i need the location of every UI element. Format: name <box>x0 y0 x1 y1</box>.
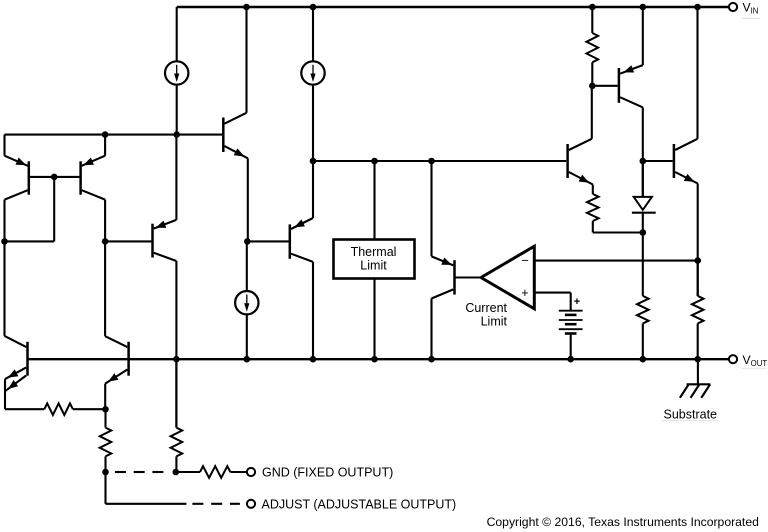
node dot x4 y241 <box>1 238 8 245</box>
node dot base mirror <box>51 174 58 181</box>
resistor R3 <box>637 233 649 360</box>
node dot rail x431 <box>428 356 435 363</box>
node dot x247 y241 <box>244 238 251 245</box>
resistor R6 <box>100 409 112 472</box>
node dot W1 x176 <box>173 131 180 138</box>
transistor Q8 <box>674 139 698 184</box>
wire Q8 base <box>643 160 673 162</box>
wire R2 to diode node <box>593 231 643 233</box>
node dot top rail x592 <box>589 4 596 11</box>
transistor Q4 <box>153 220 177 261</box>
wire top VIN rail <box>177 6 729 8</box>
wire thermal bottom pin <box>373 279 375 360</box>
transistor Q1 <box>5 156 29 200</box>
wire left column <box>3 241 5 336</box>
transistor Q6 <box>432 256 455 298</box>
node dot rail x643 <box>640 356 647 363</box>
node dot rail x374 <box>371 356 378 363</box>
wire Q1 collector down <box>3 200 5 242</box>
wire Q4 emitter up <box>175 135 177 220</box>
wire Q8 collector up <box>696 7 698 139</box>
wire Q10 emitter down <box>4 379 6 409</box>
svg-text:Substrate: Substrate <box>664 408 718 422</box>
node dot x176 y472 <box>173 469 180 476</box>
wire Q11 emitter down <box>104 384 106 410</box>
svg-text:VIN: VIN <box>743 1 759 16</box>
node dot top rail x247 <box>243 4 250 11</box>
wire Q6 emitter drop <box>430 161 432 256</box>
wire R5 to node <box>73 408 106 410</box>
resistor R1 <box>587 7 599 86</box>
wire Q6 collector down <box>430 299 432 360</box>
wire thermal top pin <box>373 161 375 240</box>
node dot W2 x431 <box>428 158 435 165</box>
node dot x592 y86 <box>589 83 596 90</box>
svg-text:Thermal: Thermal <box>351 245 397 259</box>
node dot W2 x374 <box>371 158 378 165</box>
diode D1 <box>632 161 656 233</box>
transistor Q5 <box>290 218 313 262</box>
node dot rail x176 <box>173 356 180 363</box>
node dot x643 y161 <box>640 158 647 165</box>
wire VOUT rail <box>27 358 729 360</box>
wire Q9 collector up <box>591 86 593 139</box>
wire Q7 collector down <box>642 107 644 196</box>
resistor R7 <box>171 359 183 472</box>
wire dashed gnd link <box>115 471 126 473</box>
wire to R5 <box>5 408 44 410</box>
svg-text:GND (FIXED OUTPUT): GND (FIXED OUTPUT) <box>262 466 393 480</box>
node dot minus x697 <box>694 257 701 264</box>
node dot W2 x313 <box>310 158 317 165</box>
wire Q1 Q2 base <box>28 176 82 178</box>
transistor Q3 <box>223 113 248 159</box>
svg-text:Limit: Limit <box>481 315 508 329</box>
svg-text:−: − <box>522 254 529 268</box>
resistor R2 <box>587 185 599 233</box>
terminal VOUT <box>729 355 737 363</box>
label VOUT underline <box>742 367 766 369</box>
transistor Q11 <box>105 336 129 383</box>
current source I3 <box>235 241 258 359</box>
svg-text:Current: Current <box>465 301 507 315</box>
node dot top rail x697 <box>694 4 701 11</box>
wire opamp minus input <box>534 260 697 262</box>
transistor Q7 <box>619 65 643 107</box>
node dot rail x697 <box>694 356 701 363</box>
node dot top rail x313 <box>310 4 317 11</box>
svg-text:Limit: Limit <box>360 259 387 273</box>
wire Q5 collector down <box>312 262 314 359</box>
wire adjust drop <box>104 472 106 504</box>
wire dashed adjust <box>192 503 203 505</box>
wire Q2 emitter feed <box>104 135 106 156</box>
node dot W1 x105 <box>102 131 109 138</box>
transistor Q2 <box>81 156 106 200</box>
node dot x643 y232 <box>640 229 647 236</box>
terminal ADJUST <box>247 500 255 508</box>
wire substrate stub <box>697 359 699 384</box>
wire gnd solid <box>176 471 200 473</box>
label substrate underline <box>662 420 719 422</box>
node dot x105 y409 <box>102 406 109 413</box>
ground substrate symbol <box>680 384 710 398</box>
node dot rail x570 <box>567 356 574 363</box>
resistor R8 <box>200 466 230 478</box>
wire Q7 emitter up <box>642 7 644 65</box>
block thermal limit <box>334 240 415 279</box>
wire gnd to terminal <box>230 471 247 473</box>
terminal GND <box>247 468 255 476</box>
svg-text:VOUT: VOUT <box>743 353 768 368</box>
svg-text:ADJUST (ADJUSTABLE OUTPUT): ADJUST (ADJUSTABLE OUTPUT) <box>262 498 457 512</box>
node dot rail x313 <box>310 356 317 363</box>
wire Q3 collector up <box>245 7 247 113</box>
wire Q4 collector down <box>175 261 177 428</box>
svg-text:+: + <box>574 296 580 308</box>
current source I1 <box>165 7 188 135</box>
wire Q2 collector down <box>104 200 106 337</box>
node dot top rail x643 <box>640 4 647 11</box>
battery reference <box>559 311 583 360</box>
wire W2 <box>313 160 566 162</box>
wire adjust solid <box>106 503 187 505</box>
wire Q5 emitter up <box>312 161 314 218</box>
wire T1 emitter feed <box>3 135 5 156</box>
op-amp U1 <box>481 246 534 309</box>
resistor R4 <box>692 261 704 360</box>
wire opamp plus input <box>534 292 570 294</box>
wire W1 base rail <box>5 134 223 136</box>
node dot x105 y241 <box>102 238 109 245</box>
current source I2 <box>301 7 324 161</box>
wire base Q4 <box>105 240 151 242</box>
node dot x105 y472 <box>102 469 109 476</box>
svg-text:+: + <box>521 286 528 300</box>
node dot rail x247 <box>244 356 251 363</box>
transistor Q10 <box>5 336 28 391</box>
terminal VIN <box>729 3 737 11</box>
label VIN underline <box>742 17 759 19</box>
resistor R5 <box>44 403 73 415</box>
wire mirror base drop <box>53 177 55 242</box>
wire Q3 emitter down <box>247 158 249 241</box>
wire base Q4p <box>247 240 288 242</box>
svg-text:Copyright © 2016, Texas Instru: Copyright © 2016, Texas Instruments Inco… <box>487 515 759 529</box>
wire Q8 emitter down <box>697 184 699 296</box>
wire Q6 base <box>455 276 481 278</box>
transistor Q9 <box>568 139 593 185</box>
wire Q7 base <box>592 85 617 87</box>
